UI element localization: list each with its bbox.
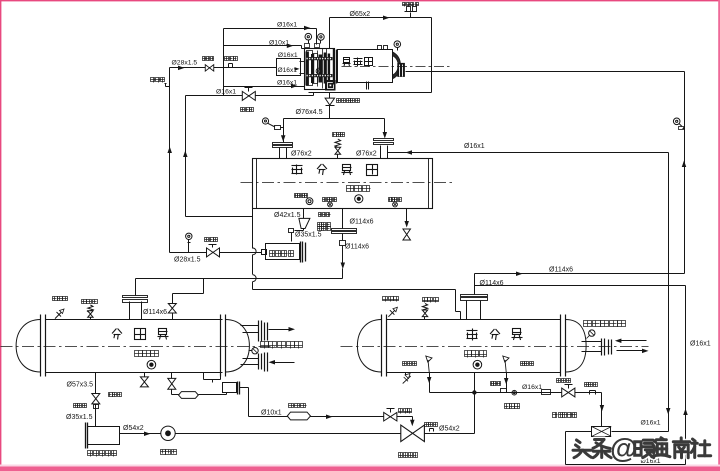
compressor end cap	[393, 52, 401, 79]
label Ø114x6 upper	[350, 219, 374, 226]
drop to dryer filter 2	[575, 393, 605, 427]
pipe oil return to evap suction nozzle	[253, 290, 461, 320]
pipe Ø16x1 from separator right nozzle to right side	[388, 150, 669, 155]
pipe discharge to check valve	[329, 93, 331, 119]
label Ø10x1 bypass	[261, 410, 282, 417]
evaporator left head	[357, 320, 381, 373]
shutoff valve on left drain	[92, 393, 122, 404]
water arrow out of evaporator	[617, 349, 649, 354]
evaporator temperature sensor (温度传感器)	[584, 321, 626, 339]
compressor body top fittings	[378, 46, 388, 50]
svg-text:Ø16x1: Ø16x1	[278, 67, 298, 74]
svg-text:Ø10x1: Ø10x1	[261, 410, 282, 417]
reducer funnel 42->35	[299, 218, 310, 230]
drain fitting	[74, 404, 99, 427]
compressor shaft coupling	[397, 63, 405, 77]
pipe Ø16x1 lower line to head	[224, 84, 305, 89]
label Ø54x2 right	[439, 426, 460, 433]
evaporator right tube sheet	[561, 315, 566, 377]
separator bottom oil drain nozzle Ø42x1.5	[274, 209, 304, 219]
suction riser from evap nozzle	[474, 274, 476, 295]
svg-text:Ø16x1: Ø16x1	[522, 384, 542, 391]
condenser sight glass	[147, 360, 156, 369]
manifold header vertical	[223, 29, 225, 96]
solenoid valve on oil cooler line	[205, 238, 220, 257]
label Ø16x1 lower	[277, 80, 297, 87]
condenser drain valve mid (dead end)	[140, 373, 148, 387]
inline fitting on feed line	[225, 57, 238, 68]
pipe discharge loop top (Ø65x2)	[309, 16, 432, 93]
svg-text:Ø35x1.5: Ø35x1.5	[66, 414, 93, 421]
solenoid valve on suction line (电磁阀)	[241, 88, 256, 112]
evaporator sight glass	[473, 360, 482, 369]
evaporator bottom vent valve	[403, 373, 411, 384]
condenser right head	[225, 320, 249, 373]
label Ø57x3.5	[67, 382, 94, 389]
pipe Ø16x1 top line to head	[224, 26, 317, 45]
svg-text:Ø28x1.5: Ø28x1.5	[172, 60, 198, 67]
hand expansion valve (large)	[399, 425, 425, 458]
gauge at separator inlet	[262, 118, 283, 130]
box-to-head connectors	[300, 62, 305, 74]
svg-text:Ø114x6: Ø114x6	[143, 309, 167, 316]
water flow arrow out	[269, 327, 296, 332]
pipe manifold to oil separator nozzles	[281, 119, 387, 142]
branch shutoff valve into condenser	[168, 303, 176, 319]
pipe Ø28x1.5 feed line	[170, 66, 277, 71]
label Ø16x1 right	[464, 143, 485, 150]
condenser bottom sump nozzle	[204, 373, 221, 383]
svg-text:Ø16x1: Ø16x1	[690, 341, 711, 348]
svg-text:Ø114x6: Ø114x6	[350, 219, 374, 226]
shutoff fitting after expansion valve	[425, 423, 475, 434]
shutoff valve on oil drain	[289, 223, 331, 242]
label 视液镜 condenser	[135, 351, 159, 357]
gauge on oil cooler line	[186, 233, 192, 252]
label 蒸发器	[467, 329, 523, 341]
water arrow into evaporator	[615, 339, 647, 344]
condenser top branch valve line	[173, 279, 204, 304]
label Ø16x1 above dryer2	[641, 420, 661, 427]
compressor body	[338, 50, 393, 83]
svg-text:Ø76x4.5: Ø76x4.5	[296, 107, 323, 116]
evaporator oil return manifold	[430, 392, 602, 394]
oil cooler vessel (油冷却器)	[262, 242, 306, 263]
svg-text:Ø10x1: Ø10x1	[269, 40, 289, 47]
dryer filter 2 (干燥过滤器)	[553, 413, 612, 437]
safety relief valve on discharge top	[403, 3, 419, 18]
evaporator top nozzle flange	[461, 295, 488, 320]
bypass drop into expansion valve	[397, 417, 415, 427]
svg-text:Ø76x2: Ø76x2	[291, 151, 312, 158]
pipe Ø10x1 line to head	[224, 44, 305, 49]
label Ø28x1.5	[172, 60, 198, 67]
compressor U1 head block	[305, 44, 336, 91]
label Ø16x1 on manifold	[522, 384, 542, 391]
main liquid line to expansion valve	[176, 433, 401, 435]
separator left inlet nozzle with flange	[273, 137, 293, 159]
label 视液镜 evaporator	[465, 351, 487, 358]
label Ø16x1 above box	[278, 52, 298, 59]
svg-text:Ø16x1: Ø16x1	[277, 80, 297, 87]
pipe Ø114x6 hot-gas to condenser	[136, 209, 357, 296]
label Ø65x2	[350, 11, 371, 18]
label Ø76x4.5	[296, 107, 323, 116]
svg-text:Ø16x1: Ø16x1	[277, 22, 297, 29]
condenser top nozzle flange	[123, 296, 148, 320]
inline capsule strainer	[172, 392, 227, 399]
svg-text:Ø54x2: Ø54x2	[123, 425, 144, 432]
evaporator right head	[566, 320, 587, 373]
svg-text:Ø16x1: Ø16x1	[216, 89, 236, 96]
svg-text:Ø16x1: Ø16x1	[278, 52, 298, 59]
check valve on feed line	[203, 57, 214, 72]
condenser water inlet nozzle bottom	[241, 353, 268, 372]
label Ø114x6 condenser inlet	[143, 309, 167, 316]
compressor head-body flange	[334, 49, 337, 85]
economizer port box with Ø16x1	[277, 59, 301, 76]
compressor centerline	[342, 66, 450, 68]
evaporator drain mid	[491, 356, 534, 393]
inline sight glass small on manifold	[505, 390, 520, 408]
separator bottom drain to oil return (left end)	[253, 209, 257, 290]
bottom hot-gas loop	[566, 409, 688, 465]
svg-text:Ø54x2: Ø54x2	[439, 426, 460, 433]
label Ø16x1 at solenoid	[216, 89, 236, 96]
svg-text:Ø114x6: Ø114x6	[480, 280, 504, 287]
pipe suction horizontal to compressor (Ø114x6)	[475, 272, 685, 277]
inline sight glass big (视油镜)	[161, 426, 177, 454]
label 视液镜 separator	[347, 186, 371, 192]
label Ø54x2 left	[123, 425, 144, 432]
svg-text:Ø35x1.5: Ø35x1.5	[295, 232, 322, 239]
discharge check valve (排气止逆阀)	[325, 98, 359, 105]
label 油分离器	[292, 164, 378, 176]
bypass solenoid valve (电磁阀)	[384, 409, 412, 422]
label Ø76x2 right	[356, 150, 377, 157]
pipe oil-return loop line (lower)	[475, 286, 686, 465]
inline component on manifold	[542, 390, 551, 395]
evaporator water nozzle flanges	[582, 339, 612, 356]
label Ø35x1.5 left	[66, 414, 93, 421]
oil separator vessel (油分离器)	[253, 159, 433, 209]
evaporator charge valve (充氮阀)	[383, 297, 399, 317]
svg-text:Ø114x6: Ø114x6	[549, 267, 573, 274]
label Ø28x1.5 bottom	[174, 257, 201, 264]
separator bottom purge valve right	[403, 209, 411, 241]
condenser left head	[16, 320, 40, 373]
svg-text:Ø28x1.5: Ø28x1.5	[174, 257, 201, 264]
dryer filter 1 (干燥过滤器)	[86, 423, 120, 457]
label Ø76x2 left	[291, 151, 312, 158]
condenser right tube sheet	[221, 315, 226, 377]
compressor bottom support stub	[367, 82, 369, 90]
level switch left ⊗Sa	[323, 198, 337, 207]
frame border	[0, 0, 720, 1]
oil cooler feed line bottom	[170, 252, 262, 254]
pipe from oil-sep Ø16x1 down right side	[666, 153, 671, 432]
gauge P1 on compressor head	[305, 33, 312, 43]
pipe oil return tee from solenoid line	[183, 96, 252, 217]
level switch right ⊗Sa	[389, 198, 402, 207]
label Ø16x1 bottom	[641, 458, 661, 465]
evaporator drain left with arrow	[403, 356, 433, 393]
oil heater (油加热器)	[295, 194, 313, 205]
svg-text:Ø76x2: Ø76x2	[356, 150, 377, 157]
gauge on suction riser	[673, 118, 684, 130]
evaporator safety valve (安全阀)	[422, 298, 438, 320]
svg-text:Ø16x1: Ø16x1	[464, 143, 485, 150]
pipe Ø28x1.5 riser left	[167, 68, 172, 253]
watermark 头条@暖通南社	[573, 432, 711, 463]
condenser liquid outlet valve to collector	[168, 373, 176, 395]
label 压缩机 on body	[343, 58, 373, 67]
manifold shutoff fitting	[585, 383, 598, 395]
label Ø10x1	[269, 40, 289, 47]
compressor suction-end gauge	[394, 41, 401, 51]
riser into evaporator bottom	[473, 373, 476, 434]
svg-text:Ø114x6: Ø114x6	[345, 244, 369, 251]
label 冷凝器	[112, 329, 168, 340]
svg-text:Ø65x2: Ø65x2	[350, 11, 371, 18]
evaporator vessel shell (蒸发器)	[387, 320, 561, 373]
label Ø114x6 suction	[549, 267, 573, 274]
svg-text:Ø16x1: Ø16x1	[641, 420, 661, 427]
svg-text:Ø42x1.5: Ø42x1.5	[274, 212, 301, 219]
condenser charge valve (充氮阀)	[53, 297, 68, 319]
oil separator centerline	[241, 182, 454, 184]
sight glass on separator	[355, 195, 363, 203]
separator safety valve (安全阀)	[333, 133, 345, 159]
evaporator centerline	[341, 346, 649, 348]
condenser safety valve (安全阀)	[82, 300, 98, 320]
condenser water outlet nozzle top	[241, 321, 268, 342]
condenser left tube sheet	[41, 315, 46, 377]
condenser left drain	[95, 373, 97, 394]
pipe Ø10x1 bypass line	[240, 388, 384, 419]
manifold solenoid valve (电磁阀)	[557, 379, 575, 397]
liquid line to sight glass	[120, 432, 161, 437]
label Ø114x6 mid	[319, 213, 370, 251]
condenser centerline	[1, 346, 275, 348]
label Ø16x1 top	[277, 22, 297, 29]
condenser temperature sensor (温度传感器)	[249, 342, 303, 354]
gauge P2 on compressor head	[318, 34, 325, 44]
label Ø114x6 lower	[480, 280, 504, 287]
water flow arrow in	[269, 360, 295, 365]
charging fitting on riser	[151, 78, 170, 87]
separator right inlet nozzle with flange	[374, 139, 394, 159]
pipe suction main from evaporator	[406, 72, 687, 274]
liquid collector	[223, 382, 240, 395]
pipe Ø16x1 solenoid suction line	[186, 93, 314, 96]
inline filter capsule on bypass	[287, 404, 310, 420]
svg-text:Ø57x3.5: Ø57x3.5	[67, 382, 94, 389]
condenser vessel shell (冷凝器)	[46, 320, 223, 373]
evaporator left tube sheet	[382, 315, 387, 377]
label Ø16x1 right column	[690, 341, 711, 348]
